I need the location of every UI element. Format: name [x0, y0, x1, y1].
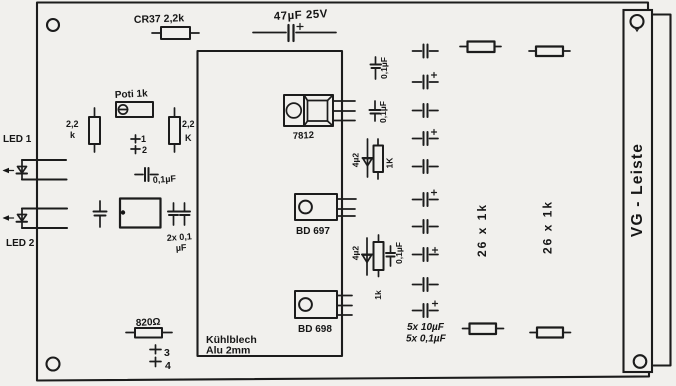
capacitor column C5 0,1µF — [413, 160, 439, 173]
mark below hole — [636, 29, 639, 32]
capacitor column C10 10µF — [413, 301, 439, 317]
transistor BD697 — [295, 194, 337, 220]
svg-text:LED 1: LED 1 — [3, 134, 32, 145]
svg-text:2x 0,1: 2x 0,1 — [166, 231, 192, 243]
svg-text:4µ2: 4µ2 — [351, 153, 361, 168]
svg-text:BD 697: BD 697 — [296, 226, 330, 237]
svg-text:1K: 1K — [385, 157, 395, 169]
svg-text:2,2: 2,2 — [182, 119, 195, 129]
transistor BD698 — [295, 291, 337, 318]
capacitor column C7 0,1µF — [413, 220, 439, 233]
capacitor column C1 0,1µF — [413, 45, 439, 58]
pad 4 — [150, 357, 161, 366]
svg-text:5x 0,1µF: 5x 0,1µF — [406, 334, 447, 345]
pins BD698 — [337, 296, 352, 316]
connector edge rectangle right — [653, 15, 671, 366]
resistor 1k lower — [374, 235, 384, 277]
svg-text:26 x 1k: 26 x 1k — [475, 203, 489, 257]
LED 2 — [17, 209, 28, 229]
arrow LED2 — [3, 215, 14, 220]
resistor 1k bottom row A — [463, 324, 504, 335]
svg-text:5x 10µF: 5x 10µF — [407, 322, 445, 333]
resistor 2,2K right — [169, 108, 180, 152]
svg-text:0,1µF: 0,1µF — [152, 173, 176, 185]
zener diode 4µ2 lower — [362, 238, 373, 275]
voltage regulator 7812 — [284, 95, 333, 126]
svg-text:3: 3 — [164, 347, 170, 359]
svg-text:26 x 1k: 26 x 1k — [541, 200, 555, 254]
resistor 1k top row A — [460, 42, 501, 53]
wire LED2 top pad — [22, 207, 67, 209]
pad 2 — [131, 146, 140, 154]
connector VG-Leiste — [624, 10, 653, 372]
pins BD697 — [337, 199, 356, 216]
capacitors 2x 0,1µF — [168, 203, 179, 225]
svg-text:µF: µF — [175, 242, 187, 253]
resistor CR37 2,2k — [152, 27, 199, 39]
svg-text:4µ2: 4µ2 — [351, 246, 361, 261]
capacitor column C3 0,1µF — [413, 104, 439, 117]
capacitor 47µF 25V — [253, 24, 336, 42]
hole VG-Leiste top — [631, 15, 644, 28]
pad 3 — [150, 345, 161, 354]
svg-text:0,1µF: 0,1µF — [394, 242, 404, 264]
potentiometer Poti 1k — [116, 102, 153, 117]
capacitor column C9 0,1µF — [413, 278, 439, 291]
resistor 1k top row B — [529, 47, 570, 57]
zener diode 4µ2 upper — [363, 139, 374, 177]
resistor 2,2k left — [89, 108, 100, 152]
svg-text:Poti 1k: Poti 1k — [115, 88, 149, 101]
mounting hole top-left — [47, 19, 59, 31]
svg-text:1k: 1k — [373, 290, 383, 300]
svg-text:7812: 7812 — [293, 130, 315, 142]
svg-text:0,1µF: 0,1µF — [378, 101, 388, 123]
wire LED1 top pad — [22, 159, 66, 161]
pins 7812 — [333, 101, 355, 121]
capacitor 0,1µF mid second — [370, 101, 381, 121]
wire LED1 bottom pad — [22, 178, 67, 180]
capacitor column C8 10µF — [413, 248, 439, 262]
capacitor column C4 10µF — [413, 130, 439, 146]
resistor 1k bottom row B — [530, 328, 571, 338]
mounting hole bottom-left — [47, 358, 60, 371]
svg-text:K: K — [185, 133, 192, 143]
resistor 820Ω — [126, 328, 172, 338]
heatsink Kühlblech Alu 2mm — [198, 51, 343, 356]
svg-text:2: 2 — [142, 145, 147, 155]
capacitor 0,1µF mid upper — [371, 57, 382, 79]
svg-text:VG - Leiste: VG - Leiste — [629, 143, 646, 237]
LED 1 — [17, 160, 28, 180]
svg-text:BD 698: BD 698 — [298, 324, 332, 335]
svg-text:1: 1 — [141, 134, 146, 144]
svg-text:Alu 2mm: Alu 2mm — [206, 345, 250, 357]
svg-text:4: 4 — [165, 360, 171, 372]
wire LED2 bottom pad — [22, 227, 67, 229]
hole VG-Leiste bottom — [634, 355, 647, 368]
svg-text:LED 2: LED 2 — [6, 238, 35, 249]
capacitor column C6 10µF — [413, 190, 439, 206]
capacitor electrolytic near IC — [94, 201, 107, 227]
capacitor column C2 10µF — [413, 73, 439, 89]
capacitor 0,1µF lower — [386, 246, 395, 266]
svg-text:0,1µF: 0,1µF — [379, 57, 389, 79]
capacitor 0,1µF horizontal — [135, 168, 158, 181]
arrow LED1 — [3, 168, 14, 173]
svg-text:2,2: 2,2 — [66, 119, 79, 129]
resistor 1k upper — [374, 139, 384, 179]
svg-text:CR37 2,2k: CR37 2,2k — [134, 12, 185, 26]
IC U1 — [120, 199, 161, 228]
pad 1 — [131, 135, 140, 143]
